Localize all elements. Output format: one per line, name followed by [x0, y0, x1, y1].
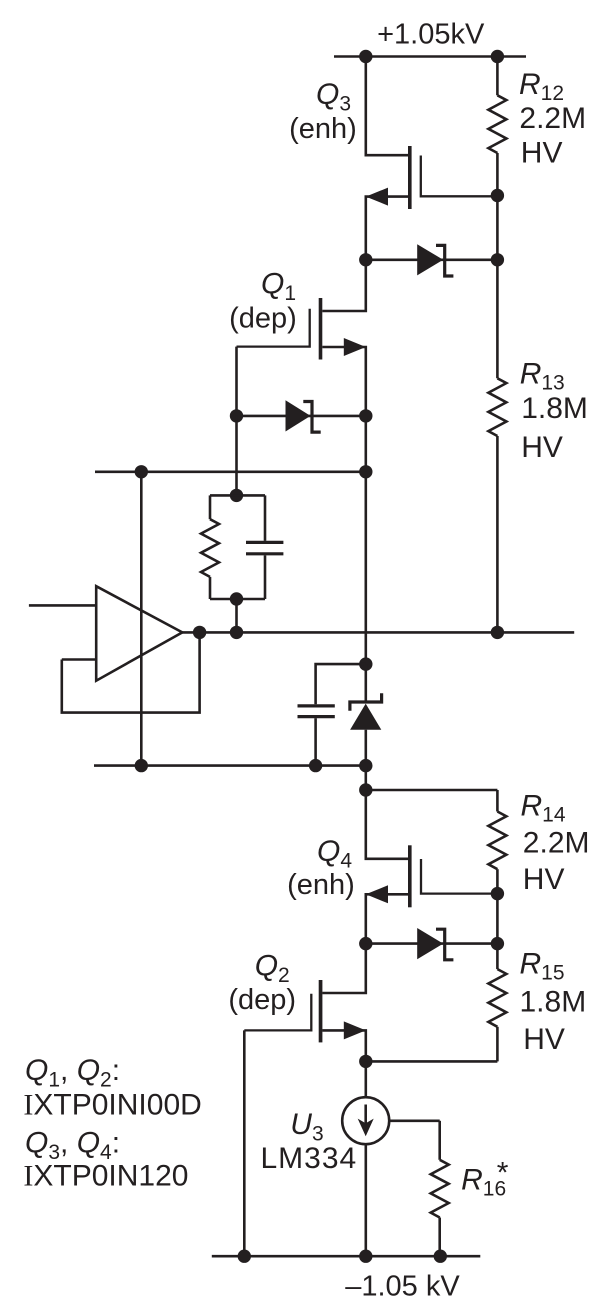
- svg-text:2.2M: 2.2M: [523, 826, 590, 859]
- svg-text:*: *: [497, 1157, 509, 1190]
- svg-text:+1.05kV: +1.05kV: [377, 19, 485, 51]
- junction dot D4 / R15: [491, 937, 504, 950]
- current source U3 LM334: [342, 1061, 389, 1256]
- junction dot D4 / Q4 source: [359, 937, 372, 950]
- resistor R15: [366, 894, 507, 1062]
- svg-text:(dep): (dep): [228, 984, 296, 1016]
- junction dot rail / R12: [491, 50, 504, 63]
- wire R14 top: [366, 789, 498, 792]
- junction dot Q2 source / U3: [359, 1055, 372, 1068]
- wire op-amp supply pins: [140, 472, 143, 766]
- svg-text:HV: HV: [523, 863, 565, 896]
- wire op-amp inverting input: [62, 658, 96, 661]
- svg-text:Q3: Q3: [316, 78, 351, 116]
- transistor Q2 (dep): [244, 944, 365, 1062]
- svg-text:R15: R15: [520, 948, 565, 985]
- wire U3 set pin to R16: [389, 1120, 440, 1123]
- svg-text:HV: HV: [521, 431, 563, 464]
- transistor Q4 (enh): [366, 790, 498, 944]
- svg-text:(enh): (enh): [287, 869, 355, 901]
- zener diode D5 clamp: [350, 664, 382, 766]
- svg-text:(enh): (enh): [289, 113, 357, 145]
- junction dot rail / R16: [434, 1250, 447, 1263]
- junction dot output / feedback: [193, 626, 206, 639]
- junction dot V- rail / clamp C: [309, 759, 322, 772]
- resistor R13: [488, 196, 506, 633]
- junction dot V- rail / main column: [359, 759, 372, 772]
- svg-text:(dep): (dep): [229, 303, 297, 335]
- svg-text:Q1, Q2:: Q1, Q2:: [25, 1054, 120, 1092]
- svg-text:U3: U3: [290, 1108, 323, 1146]
- wire main column through output row: [364, 472, 367, 664]
- svg-text:IXTP0IN120: IXTP0IN120: [23, 1160, 188, 1193]
- svg-text:1.8M: 1.8M: [520, 986, 587, 1019]
- wire op-amp V- rail: [94, 764, 366, 767]
- zener diode D2 Q1 gate-source: [237, 400, 366, 432]
- svg-text:Q2: Q2: [255, 949, 290, 987]
- capacitor clamp C: [298, 664, 366, 766]
- wire Q1 gate node to RC network: [235, 416, 238, 496]
- svg-text:IXTP0INI00D: IXTP0INI00D: [23, 1088, 201, 1121]
- junction dot rail / op-amp supply: [135, 465, 148, 478]
- capacitor feedback C: [246, 495, 283, 599]
- transistor Q3 (enh): [366, 57, 498, 260]
- resistor R12: [488, 57, 506, 196]
- junction dot D2 / Q1 source: [359, 409, 372, 422]
- svg-text:Q3, Q4:: Q3, Q4:: [25, 1127, 120, 1165]
- junction dot rail / main column: [359, 465, 372, 478]
- junction dot RC network bottom: [230, 592, 243, 605]
- wire op-amp output row: [182, 631, 574, 634]
- junction dot Q4 drain node: [359, 783, 372, 796]
- wire Q1 source to supply rail: [364, 416, 367, 472]
- junction dot rail / Q2 gate: [238, 1250, 251, 1263]
- wire op-amp V+ rail: [95, 470, 366, 473]
- wire feedback loop output to inverting input: [62, 632, 200, 712]
- junction dot output / RC network: [230, 626, 243, 639]
- svg-text:2.2M: 2.2M: [519, 102, 586, 135]
- zener diode D4 Q4 gate-source: [366, 928, 498, 960]
- svg-text:R13: R13: [520, 358, 565, 395]
- svg-text:R14: R14: [521, 789, 566, 826]
- svg-text:1.8M: 1.8M: [521, 392, 588, 425]
- svg-text:Q1: Q1: [261, 267, 296, 305]
- wire Q1 gate down: [235, 347, 238, 416]
- wire RC network bottom tee: [210, 598, 265, 601]
- junction dot RC network top: [230, 489, 243, 502]
- zener diode D1 Q3 gate-source: [366, 244, 498, 276]
- svg-text:LM334: LM334: [261, 1142, 358, 1175]
- junction dot rail / U3: [359, 1250, 372, 1263]
- op-amp U1: [96, 586, 182, 681]
- junction dot clamp top: [359, 657, 372, 670]
- wire -1.05kV rail: [212, 1255, 481, 1258]
- resistor R14: [488, 790, 506, 894]
- wire RC network to output node: [235, 599, 238, 632]
- transistor Q1 (dep): [237, 260, 366, 416]
- svg-text:R12: R12: [519, 68, 564, 105]
- wire Q2 gate to -1.05kV rail: [243, 1030, 246, 1256]
- wire main column to lower stack: [364, 766, 367, 790]
- resistor R16: [431, 1121, 449, 1256]
- svg-text:–1.05 kV: –1.05 kV: [345, 1271, 460, 1303]
- resistor feedback R: [201, 495, 219, 599]
- svg-text:HV: HV: [521, 137, 563, 170]
- junction dot D2 / Q1 gate node: [230, 409, 243, 422]
- junction dot D1 / Q3 source: [359, 253, 372, 266]
- junction dot R14 / R15 / Q4 gate: [491, 887, 504, 900]
- junction dot V- rail / op-amp supply: [135, 759, 148, 772]
- junction dot rail / Q3 drain: [359, 50, 372, 63]
- junction dot D1 / R13: [491, 253, 504, 266]
- junction dot output / R13: [491, 626, 504, 639]
- wire op-amp noninverting input: [29, 604, 96, 607]
- wire RC network top tee: [210, 494, 265, 497]
- wire +1.05kV rail: [334, 55, 526, 58]
- junction dot R12 / R13 / Q3 gate: [491, 189, 504, 202]
- svg-text:HV: HV: [523, 1023, 565, 1056]
- svg-text:Q4: Q4: [317, 835, 352, 873]
